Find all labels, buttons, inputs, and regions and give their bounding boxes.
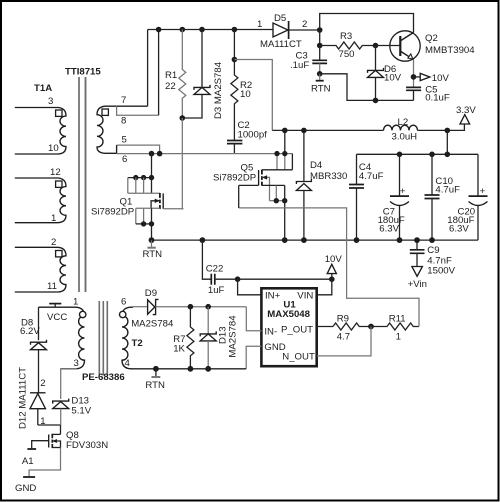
svg-text:Si7892DP: Si7892DP <box>213 173 256 184</box>
diode D5 <box>273 23 288 37</box>
node emitter-10V <box>411 74 417 80</box>
svg-text:RTN: RTN <box>311 84 331 95</box>
node Q1 source stub b <box>149 221 154 226</box>
node RTN-D4 <box>301 237 307 243</box>
capacitor C9 <box>416 240 418 250</box>
node R3 input <box>317 43 323 49</box>
svg-text:4.7: 4.7 <box>337 332 350 343</box>
node Q5 source stub b <box>282 198 287 203</box>
wire C3 bottom to D6 anode rail <box>320 74 414 101</box>
node C3 bottom <box>317 71 323 77</box>
svg-text:1: 1 <box>73 297 78 308</box>
MOSFET Q5 drain stubs <box>277 154 285 170</box>
wire pin5 lead <box>117 145 160 154</box>
wire P_OUT pin <box>317 326 333 328</box>
node Q1 stub c <box>149 175 154 180</box>
node Q5 stub a <box>274 151 279 156</box>
Q1 source stub rail <box>136 223 152 225</box>
T1A winding W1 (pins 3-10) <box>15 108 66 154</box>
svg-text:2: 2 <box>302 19 307 30</box>
Q1 drain stub rail <box>128 177 152 179</box>
wire Q2 emitter down <box>413 60 415 88</box>
svg-text:RTN: RTN <box>143 249 163 260</box>
svg-text:1: 1 <box>51 213 56 224</box>
wire pin8 riser <box>158 30 160 116</box>
svg-text:MMBT3904: MMBT3904 <box>425 45 475 56</box>
svg-text:D9: D9 <box>145 288 157 299</box>
MOSFET Q1 drain riser <box>151 154 153 178</box>
svg-text:2: 2 <box>40 378 45 389</box>
svg-text:PE-68386: PE-68386 <box>82 372 125 383</box>
wire Q8 source to GND <box>29 448 60 477</box>
svg-text:1K: 1K <box>173 344 185 355</box>
svg-text:MA2S784: MA2S784 <box>131 319 174 330</box>
ground bar <box>23 476 35 478</box>
wire node1 to Q8 drain <box>38 425 61 434</box>
svg-text:D4: D4 <box>310 160 323 171</box>
node Q1 source stub a <box>141 221 146 226</box>
node RTN-C22 riser <box>200 237 206 243</box>
diode D9 <box>148 300 155 314</box>
svg-text:C9: C9 <box>427 245 439 256</box>
node rail-C7 <box>397 152 403 158</box>
Q5 source lead <box>262 184 285 186</box>
svg-text:MBR330: MBR330 <box>310 171 347 182</box>
svg-text:10V: 10V <box>325 254 343 265</box>
svg-text:+Vin: +Vin <box>408 279 427 290</box>
wire T2 pin1 to D8 <box>38 307 40 340</box>
svg-text:7: 7 <box>121 95 126 106</box>
polarity square W3 <box>56 251 62 257</box>
svg-text:GND: GND <box>15 483 36 494</box>
resistor R9 <box>333 323 371 330</box>
svg-text:1: 1 <box>396 332 401 343</box>
capacitor C3 <box>319 46 321 61</box>
wire C22 to 10V node <box>216 278 332 280</box>
svg-text:D12 MA111CT: D12 MA111CT <box>18 367 29 429</box>
svg-text:1uF: 1uF <box>208 285 225 296</box>
Q5 body arrow <box>262 177 270 200</box>
svg-text:12: 12 <box>50 167 61 178</box>
capacitor C7 electrolytic <box>399 154 401 196</box>
svg-text:3.3V: 3.3V <box>456 105 476 116</box>
node R1-D3 link <box>180 115 186 121</box>
node rail-D13 <box>205 366 211 372</box>
wire T2 secondary bottom rail <box>133 368 246 370</box>
resistor R1 <box>179 30 186 119</box>
node Q1 stub b <box>141 175 146 180</box>
node D9-R7 <box>188 304 194 310</box>
svg-text:R1: R1 <box>165 70 177 81</box>
zener D6 <box>375 46 377 71</box>
node R9-R11-NOUT <box>368 324 374 330</box>
node D5 cathode <box>317 27 323 33</box>
diode D12 <box>30 392 46 394</box>
Q1 gate lead <box>163 208 183 210</box>
node rail-C10 <box>429 152 435 158</box>
svg-text:5: 5 <box>122 135 127 146</box>
T2 primary polarity circle <box>80 311 86 317</box>
T1A core <box>78 77 80 292</box>
svg-text:6.2V: 6.2V <box>20 326 40 337</box>
zener D3 <box>201 30 203 88</box>
svg-text:A1: A1 <box>22 456 34 467</box>
diode D4 (MBR330) <box>303 130 305 181</box>
polarity square W2 <box>56 181 62 187</box>
node RTN-C10 <box>429 237 435 243</box>
svg-text:IN-: IN- <box>264 327 277 338</box>
zener D13 (5.1V) <box>53 399 69 404</box>
node bus-D3 <box>199 27 205 33</box>
svg-text:.1uF: .1uF <box>290 60 309 71</box>
node bus-R2 <box>232 27 238 33</box>
MOSFET Q8 <box>52 433 60 435</box>
T2 secondary winding (pins 6-4) <box>122 307 133 369</box>
zener D13 (MA2S784) <box>207 307 209 334</box>
RTN stub at Q1 <box>151 240 153 247</box>
Q1 drain stubs <box>128 178 144 194</box>
capacitor C2 <box>227 141 242 144</box>
svg-text:MAX5048: MAX5048 <box>267 309 310 320</box>
RTN stub at T2 <box>155 369 157 376</box>
node rail-RTN <box>153 366 159 372</box>
svg-text:D5: D5 <box>274 13 286 24</box>
node LX-pin5 <box>157 151 163 157</box>
svg-text:Si7892DP: Si7892DP <box>91 207 134 218</box>
node rail-R7 <box>188 366 194 372</box>
svg-text:+: + <box>400 186 406 197</box>
svg-text:IN+: IN+ <box>265 291 281 302</box>
svg-text:RTN: RTN <box>145 380 165 391</box>
IC U1 box <box>261 288 316 366</box>
wire N_OUT pin <box>317 327 371 356</box>
svg-text:VCC: VCC <box>47 312 67 323</box>
node rail-riser <box>445 152 451 158</box>
wire output cap top rail <box>357 153 479 155</box>
node 10V-VIN <box>329 276 335 282</box>
wire pin5 body stub <box>116 145 118 153</box>
wire pin6 to D9 <box>133 306 148 308</box>
wire Q5 source to RTN <box>284 201 286 240</box>
capacitor C5 <box>406 87 421 90</box>
node RTN at Q1 <box>149 237 155 243</box>
resistor R3 <box>320 42 376 49</box>
wire LX upper line <box>272 129 383 131</box>
Q1 body arrow <box>151 201 160 209</box>
transistor Q2 <box>390 31 420 61</box>
resistor R2 <box>231 30 238 141</box>
node LX-D4 <box>301 128 307 134</box>
svg-text:P_OUT: P_OUT <box>281 325 313 336</box>
svg-text:Q2: Q2 <box>425 33 438 44</box>
svg-text:R11: R11 <box>389 314 406 325</box>
node bus-pin8 <box>156 27 162 33</box>
svg-text:R9: R9 <box>337 314 349 325</box>
Q1 source stubs <box>136 208 144 224</box>
node RTN-C7 <box>397 237 403 243</box>
svg-text:C22: C22 <box>206 264 224 275</box>
capacitor C4 <box>356 154 358 184</box>
T2 secondary polarity circle <box>120 311 126 317</box>
wire D9 to IN- corner <box>156 306 247 308</box>
wire R3 to Q2 base <box>376 45 401 47</box>
node bus-R1 <box>180 27 186 33</box>
svg-text:8: 8 <box>121 116 126 127</box>
svg-text:VIN: VIN <box>297 291 313 302</box>
net arrow +Vin (down) <box>412 267 423 277</box>
net arrow 10V (right) <box>414 76 421 78</box>
svg-text:L2: L2 <box>398 117 409 128</box>
wire cathode riser to top rail <box>320 14 414 33</box>
resistor R7 <box>187 307 194 369</box>
Q5 gate lead <box>239 184 259 186</box>
svg-text:0.1uF: 0.1uF <box>425 93 450 104</box>
wire R1 to Q1 gate <box>182 118 183 209</box>
transformer T2 core <box>98 301 100 376</box>
T1A winding W2 (pins 12-1) <box>15 178 66 223</box>
node 3.3V rail tap <box>445 128 451 134</box>
wire top bus <box>148 29 273 31</box>
Q5 gate bar <box>258 170 260 185</box>
svg-text:3: 3 <box>74 358 79 369</box>
node Q5 stub b <box>282 151 287 156</box>
Q5 source stub rail <box>270 200 285 202</box>
svg-text:T1A: T1A <box>34 83 52 94</box>
node RTN-Q5 <box>282 237 288 243</box>
svg-text:FDV303N: FDV303N <box>66 440 108 451</box>
capacitor C22 <box>211 274 215 285</box>
wire gate drive path R11 to Q5 <box>239 208 419 327</box>
svg-text:750: 750 <box>339 49 355 60</box>
T2 primary winding (pins 1-3) <box>39 307 85 369</box>
svg-text:MA111CT: MA111CT <box>260 39 302 50</box>
svg-text:MA2S784: MA2S784 <box>228 315 239 358</box>
capacitor C20 electrolytic <box>477 154 479 196</box>
zener D8 <box>31 340 47 345</box>
VCC stub <box>54 304 56 308</box>
svg-text:3: 3 <box>48 96 53 107</box>
wire pin7 lead <box>117 105 148 107</box>
svg-text:+: + <box>480 186 486 197</box>
svg-text:4.7uF: 4.7uF <box>359 171 384 182</box>
svg-text:6: 6 <box>121 297 126 308</box>
wire pin7 riser <box>147 30 149 107</box>
terminal A1 <box>27 448 36 450</box>
Q2 emitter arrow <box>408 54 413 59</box>
svg-text:D3 MA2S784: D3 MA2S784 <box>213 61 224 119</box>
wire Q8 gate to A1 <box>32 441 49 449</box>
svg-text:4: 4 <box>125 358 131 369</box>
node RTN-C4 <box>354 237 360 243</box>
Q1 channel <box>159 193 161 209</box>
polarity square secondary <box>102 109 108 115</box>
wire pin6 / LX lower line <box>117 153 293 155</box>
svg-text:10: 10 <box>240 89 251 100</box>
svg-text:4.7uF: 4.7uF <box>435 185 460 196</box>
svg-text:11: 11 <box>47 281 57 292</box>
node D6 anode <box>373 98 379 104</box>
node LX-Q1 drain <box>149 151 155 157</box>
net arrow 10V (up) <box>331 274 333 280</box>
wire R2 tap to LX riser <box>234 60 272 131</box>
node Q5 source stub a <box>274 198 279 203</box>
resistor R11 <box>371 323 419 330</box>
svg-text:TTI8715: TTI8715 <box>65 67 101 78</box>
wire RTN rail <box>152 239 479 241</box>
node RTN-C9 <box>414 237 420 243</box>
node Q1 stub a <box>133 175 138 180</box>
node IN+ tap <box>235 276 241 282</box>
Q5 channel <box>261 170 263 186</box>
T1A secondary winding (pins 7-8-5-6) <box>97 106 117 153</box>
wire VIN pin <box>317 279 332 295</box>
wire IN- pin <box>246 307 261 331</box>
svg-text:10V: 10V <box>384 73 402 84</box>
wire IN+ pin <box>238 279 262 295</box>
wire T2 pin3 to D13 <box>61 369 77 399</box>
svg-text:T2: T2 <box>132 338 143 349</box>
polarity square W1 <box>56 110 62 116</box>
svg-text:1: 1 <box>257 19 262 30</box>
svg-text:10V: 10V <box>432 73 450 84</box>
wire GND pin <box>246 346 261 369</box>
svg-text:1000pf: 1000pf <box>238 130 268 141</box>
node R2 tap <box>232 57 238 63</box>
wire 3.3V riser to cap rail <box>446 130 448 154</box>
wire C22 riser <box>202 240 210 279</box>
svg-text:6.3V: 6.3V <box>379 224 399 235</box>
inductor L2 <box>384 125 418 130</box>
capacitor C10 <box>431 154 433 195</box>
svg-text:6.3V: 6.3V <box>449 224 469 235</box>
Q5 drain riser to LX <box>284 130 286 153</box>
Q5 drain lead <box>262 169 293 171</box>
svg-text:1500V: 1500V <box>427 266 455 277</box>
svg-text:10: 10 <box>48 143 59 154</box>
T1A winding W3 (pins 2-11) <box>15 247 66 292</box>
wire L2 to 3.3V <box>418 124 465 130</box>
svg-text:3.0uH: 3.0uH <box>392 132 418 143</box>
Q1 drain lead <box>128 192 160 194</box>
wire pin8 lead <box>117 106 159 115</box>
Q1 source lead <box>136 207 160 209</box>
node D9-D13 <box>205 304 211 310</box>
Q1 gate bar <box>162 193 164 208</box>
svg-text:6: 6 <box>122 154 127 165</box>
node LX-Q5 <box>282 128 288 134</box>
svg-text:N_OUT: N_OUT <box>282 352 315 363</box>
svg-text:5.1V: 5.1V <box>71 406 91 417</box>
svg-text:22: 22 <box>165 81 176 92</box>
svg-text:R3: R3 <box>340 31 352 42</box>
wire Q1 source to RTN <box>151 224 153 240</box>
net arrow 3.3V (up) <box>460 115 470 124</box>
svg-text:2: 2 <box>51 237 56 248</box>
node D6 top <box>373 43 379 49</box>
Q5 source stubs <box>275 185 277 200</box>
wire cathode down <box>319 30 321 46</box>
RTN stub at C3 <box>319 74 321 80</box>
